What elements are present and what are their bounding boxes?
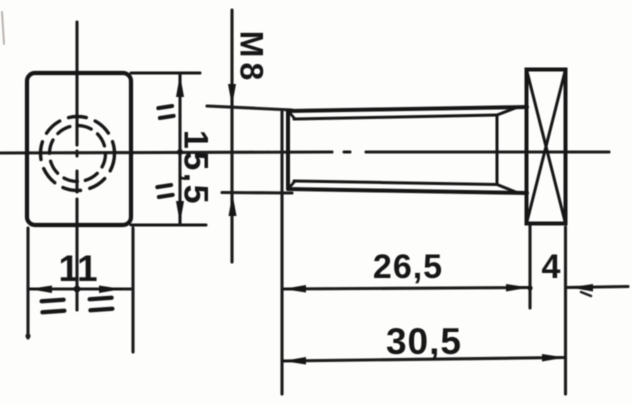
main horizontal centerline (axis) right part <box>366 150 609 153</box>
thread runout line <box>496 115 499 185</box>
dimension 15,5 : dimension line <box>178 73 181 225</box>
dimension 11 : dimension line <box>28 287 133 290</box>
equal mark (bottom) <box>157 185 172 197</box>
left end chamfer (top) <box>289 112 295 119</box>
equal mark (top) <box>158 106 173 118</box>
M8 upper arrowhead (points down to crest line) <box>228 84 236 106</box>
26,5 left arrowhead <box>283 285 306 293</box>
extension line from head right face <box>564 227 567 394</box>
11 left arrowhead <box>29 286 52 294</box>
4 arrow flick <box>581 292 591 296</box>
svg-text:4: 4 <box>542 248 561 286</box>
4 arrowhead (points left to head face) <box>570 284 593 292</box>
main horizontal centerline (axis) left part <box>0 152 332 153</box>
M8 lower arrowhead (points up to crest line) <box>229 194 237 216</box>
30,5 right arrowhead <box>542 354 565 362</box>
dimension 30,5 : dimension line <box>282 358 566 362</box>
bolt head side view <box>527 70 566 224</box>
dimension 26,5 : dimension line <box>282 288 530 290</box>
runout chamfer (top) <box>497 107 518 115</box>
svg-text:30,5: 30,5 <box>386 321 462 362</box>
26,5 right arrowhead <box>506 284 529 292</box>
svg-text:M8: M8 <box>234 31 270 85</box>
extension line from head left face <box>528 226 531 308</box>
dimension 11 : left extension line <box>26 228 29 338</box>
thread minor diameter line (top) <box>294 115 497 119</box>
vertical centerline of front view <box>75 22 78 145</box>
scan artifact top-left <box>2 12 4 44</box>
junction dot on axis <box>177 149 183 155</box>
thread designation M8 : dimension line <box>230 10 233 262</box>
centerline dot inside shaft <box>344 151 350 154</box>
thread minor diameter line (bottom) <box>294 181 497 185</box>
dimension 15,5 : upper arrowhead <box>176 75 184 98</box>
equal mark (right of centerline) <box>90 298 113 311</box>
junction dot 26,5/4 <box>527 285 532 290</box>
dimension 15,5 : top extension (head top edge extended) <box>131 72 200 75</box>
thread major circle (dashed) <box>41 117 115 191</box>
11 right arrowhead <box>99 286 122 294</box>
dimension 4 : outside arrow tail <box>566 287 629 288</box>
left end chamfer (bottom) <box>289 181 295 188</box>
blob at end of extension <box>25 333 30 338</box>
30,5 left arrowhead <box>283 357 306 365</box>
dimension 15,5 : lower arrowhead <box>176 201 184 224</box>
svg-text:11: 11 <box>58 248 97 289</box>
head face diagonal 2 (flat marking) <box>527 70 566 224</box>
M8 upper extension (thread crest extended) <box>207 106 292 110</box>
M8 lower extension (thread crest extended) <box>222 191 292 195</box>
extension line from shank left edge <box>280 112 283 394</box>
shaft outline (threaded shank, side view) <box>288 107 527 193</box>
svg-text:15,5: 15,5 <box>177 130 215 206</box>
runout chamfer (bottom) <box>497 185 518 194</box>
dimension 11 : right extension line <box>131 228 134 352</box>
head face diagonal 1 (flat marking) <box>527 70 566 224</box>
bolt head front view (rounded square) <box>27 73 131 225</box>
dimension 15,5 : bottom extension (head bottom edge extended) <box>131 224 206 227</box>
svg-text:26,5: 26,5 <box>373 248 443 286</box>
junction dot centerline/11 <box>74 286 81 293</box>
thread minor circle (dashed) <box>50 126 106 182</box>
equal mark (left of centerline) <box>42 300 65 313</box>
